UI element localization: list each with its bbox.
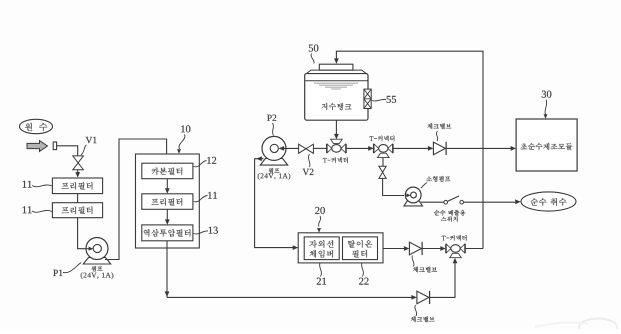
- label 11c: [208, 192, 217, 199]
- wire check valve 1 to module 30: [447, 147, 511, 149]
- RO filter box 13 역삼투압필터: [142, 225, 193, 241]
- wire inlet to V1: [57, 146, 78, 156]
- wire bottom loop to check valve 3: [167, 296, 412, 298]
- label 50: [309, 45, 319, 52]
- label T-connector 1: [323, 157, 348, 163]
- UV chamber box 21 자외선 체임버: [304, 237, 339, 260]
- pump P1: [83, 258, 111, 265]
- pre-filter box 11b 프리필터: [52, 203, 102, 218]
- wire V1 to prefilter 1: [77, 170, 79, 173]
- T-connector 3: [445, 244, 447, 253]
- label V2: [303, 169, 314, 175]
- label V1: [86, 137, 97, 143]
- label P1 spec 펌프 (24V,1A): [92, 266, 103, 271]
- valve V2: [299, 144, 306, 153]
- wire recirculation rail to tank: [336, 51, 483, 248]
- T-connector 1: [326, 144, 328, 153]
- label check valve 2: [413, 267, 437, 273]
- wire small pump to switch: [421, 201, 444, 203]
- wire unit 20 to check valve 2: [383, 248, 405, 250]
- label T-connector 3: [442, 235, 467, 241]
- storage tank 50 저수탱크: [305, 74, 368, 121]
- switch 순수 배출용 스위치: [444, 200, 448, 204]
- wire T-connector 1 to T-connector 2: [346, 147, 369, 149]
- filter-unit outer box 10: [136, 154, 200, 248]
- wire V2 to T-connector 1: [313, 147, 326, 149]
- label 55: [387, 96, 396, 103]
- level sensor 55: [364, 89, 371, 108]
- inlet connector stub: [53, 142, 56, 150]
- label 30: [542, 91, 552, 98]
- label check valve 1: [427, 123, 451, 129]
- wire check valve 2 to T-connector 3: [422, 248, 441, 250]
- check valve 2 체크밸브: [404, 246, 410, 251]
- wire P2 outlet to polishing unit 20: [255, 159, 293, 248]
- flow block arrow (inlet): [27, 141, 48, 152]
- wire prefilter1 to prefilter2: [77, 194, 79, 203]
- watermark (faint): [579, 319, 617, 334]
- check valve 3 체크밸브: [411, 295, 417, 300]
- wire prefilter2 to pump P1: [78, 218, 85, 249]
- wire check valve 3 to T-connector 3: [430, 262, 455, 297]
- label 21: [317, 278, 326, 285]
- label 11a: [23, 181, 32, 188]
- label P1: [53, 270, 62, 276]
- wire T2 to drain valve: [382, 158, 384, 167]
- check valve 1 체크밸브: [428, 146, 434, 151]
- label P2 spec 펌프 (24V,1A): [269, 168, 280, 173]
- label P2: [267, 115, 276, 121]
- wire 13 down to bottom loop: [166, 241, 168, 298]
- label switch: [434, 210, 465, 216]
- label small pump 소형펌프: [426, 176, 450, 182]
- wire T-connector 2 to check valve 1: [393, 147, 429, 149]
- label 12: [207, 157, 216, 164]
- pump P2: [260, 158, 288, 165]
- label 13: [209, 227, 218, 234]
- label T-connector 2: [369, 136, 394, 142]
- wire tank to T-connector 1: [335, 120, 337, 135]
- drain valve (unlabeled): [379, 166, 386, 172]
- label check valve 3: [411, 316, 435, 322]
- DI filter box 22 탈이온 필터: [343, 237, 378, 260]
- T-connector 2: [373, 144, 375, 153]
- pre-filter box 11c 프리필터: [142, 194, 193, 210]
- wire V2 to P2: [280, 147, 299, 149]
- pre-filter box 11a 프리필터: [52, 178, 102, 194]
- node pure-water outlet 순수 취수: [521, 192, 576, 211]
- wire drain valve to small pump: [383, 178, 404, 195]
- label 22: [359, 278, 369, 285]
- wire 11c to 13: [166, 209, 168, 220]
- wire 12 to 11c: [166, 179, 168, 189]
- label 10: [181, 125, 190, 132]
- wire P1 to filter-unit 10: [105, 139, 167, 260]
- small pump 소형펌프: [404, 201, 423, 206]
- carbon filter box 12 카본필터: [142, 163, 193, 179]
- module box 30 초순수제조모듈: [516, 119, 577, 171]
- label 20: [315, 207, 325, 214]
- node raw-water source 원수: [20, 119, 53, 133]
- wire T-connector 3 to rail: [465, 248, 483, 250]
- polishing unit outer box 20: [298, 233, 383, 263]
- valve V1: [73, 156, 84, 163]
- label 11b: [23, 206, 32, 213]
- wire switch to pure-water outlet: [464, 201, 516, 203]
